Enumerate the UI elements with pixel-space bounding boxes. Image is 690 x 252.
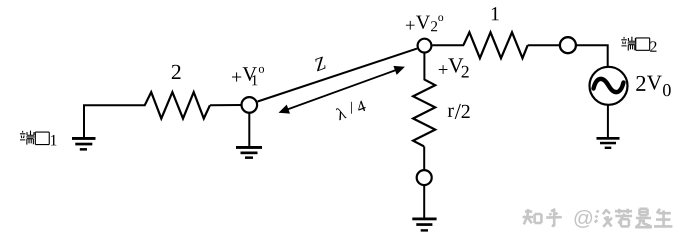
label Z line impedance [315, 56, 325, 71]
resistor r/2 vertical [413, 79, 435, 146]
value label r/2 [448, 104, 470, 119]
transmission line wire V1 to V2 [258, 49, 417, 102]
sine symbol of source [594, 79, 624, 92]
wire resistor 1 to port 2 terminal [528, 44, 560, 46]
ground under node V1 [236, 146, 262, 159]
voltage source 2V0 circle [590, 67, 628, 105]
wire node V2 to resistor r/2 [423, 53, 425, 80]
label +V2 [439, 58, 469, 77]
wire resistor 2 to node V1 [210, 104, 242, 106]
resistor 1 (series, port2 side) [463, 32, 527, 58]
wire source to ground [607, 105, 609, 137]
ground bottom of r/2 branch [412, 218, 436, 232]
wire node V1 to ground [248, 113, 250, 146]
wire node V2 to resistor 1 [433, 44, 465, 46]
wire port1 to resistor 2 [84, 105, 146, 137]
resistor 2 (series, port1 side) [145, 92, 210, 118]
wire terminal to ground [423, 185, 425, 217]
ground under source [597, 137, 620, 149]
double arrow lambda/4 marker [279, 66, 405, 114]
label lambda/4 [336, 101, 366, 121]
value label 2V0 [636, 76, 670, 97]
node V2 terminal circle [418, 39, 432, 53]
terminal circle bottom of r/2 branch [417, 170, 432, 185]
label 端口1 (Port 1) [20, 131, 49, 145]
value label 2 [172, 65, 181, 79]
ground at port 1 [72, 137, 96, 151]
wire port 2 terminal to source [576, 45, 608, 66]
label 端口2 (Port 2) [621, 37, 649, 51]
value label 1 [492, 7, 499, 20]
port 2 terminal circle [560, 37, 576, 53]
label +V1o [232, 67, 264, 85]
watermark 知乎 @淡若是生 [523, 209, 673, 227]
wire resistor r/2 to terminal [423, 146, 425, 170]
label +V2o [406, 15, 443, 31]
node V1 terminal circle [242, 97, 258, 113]
